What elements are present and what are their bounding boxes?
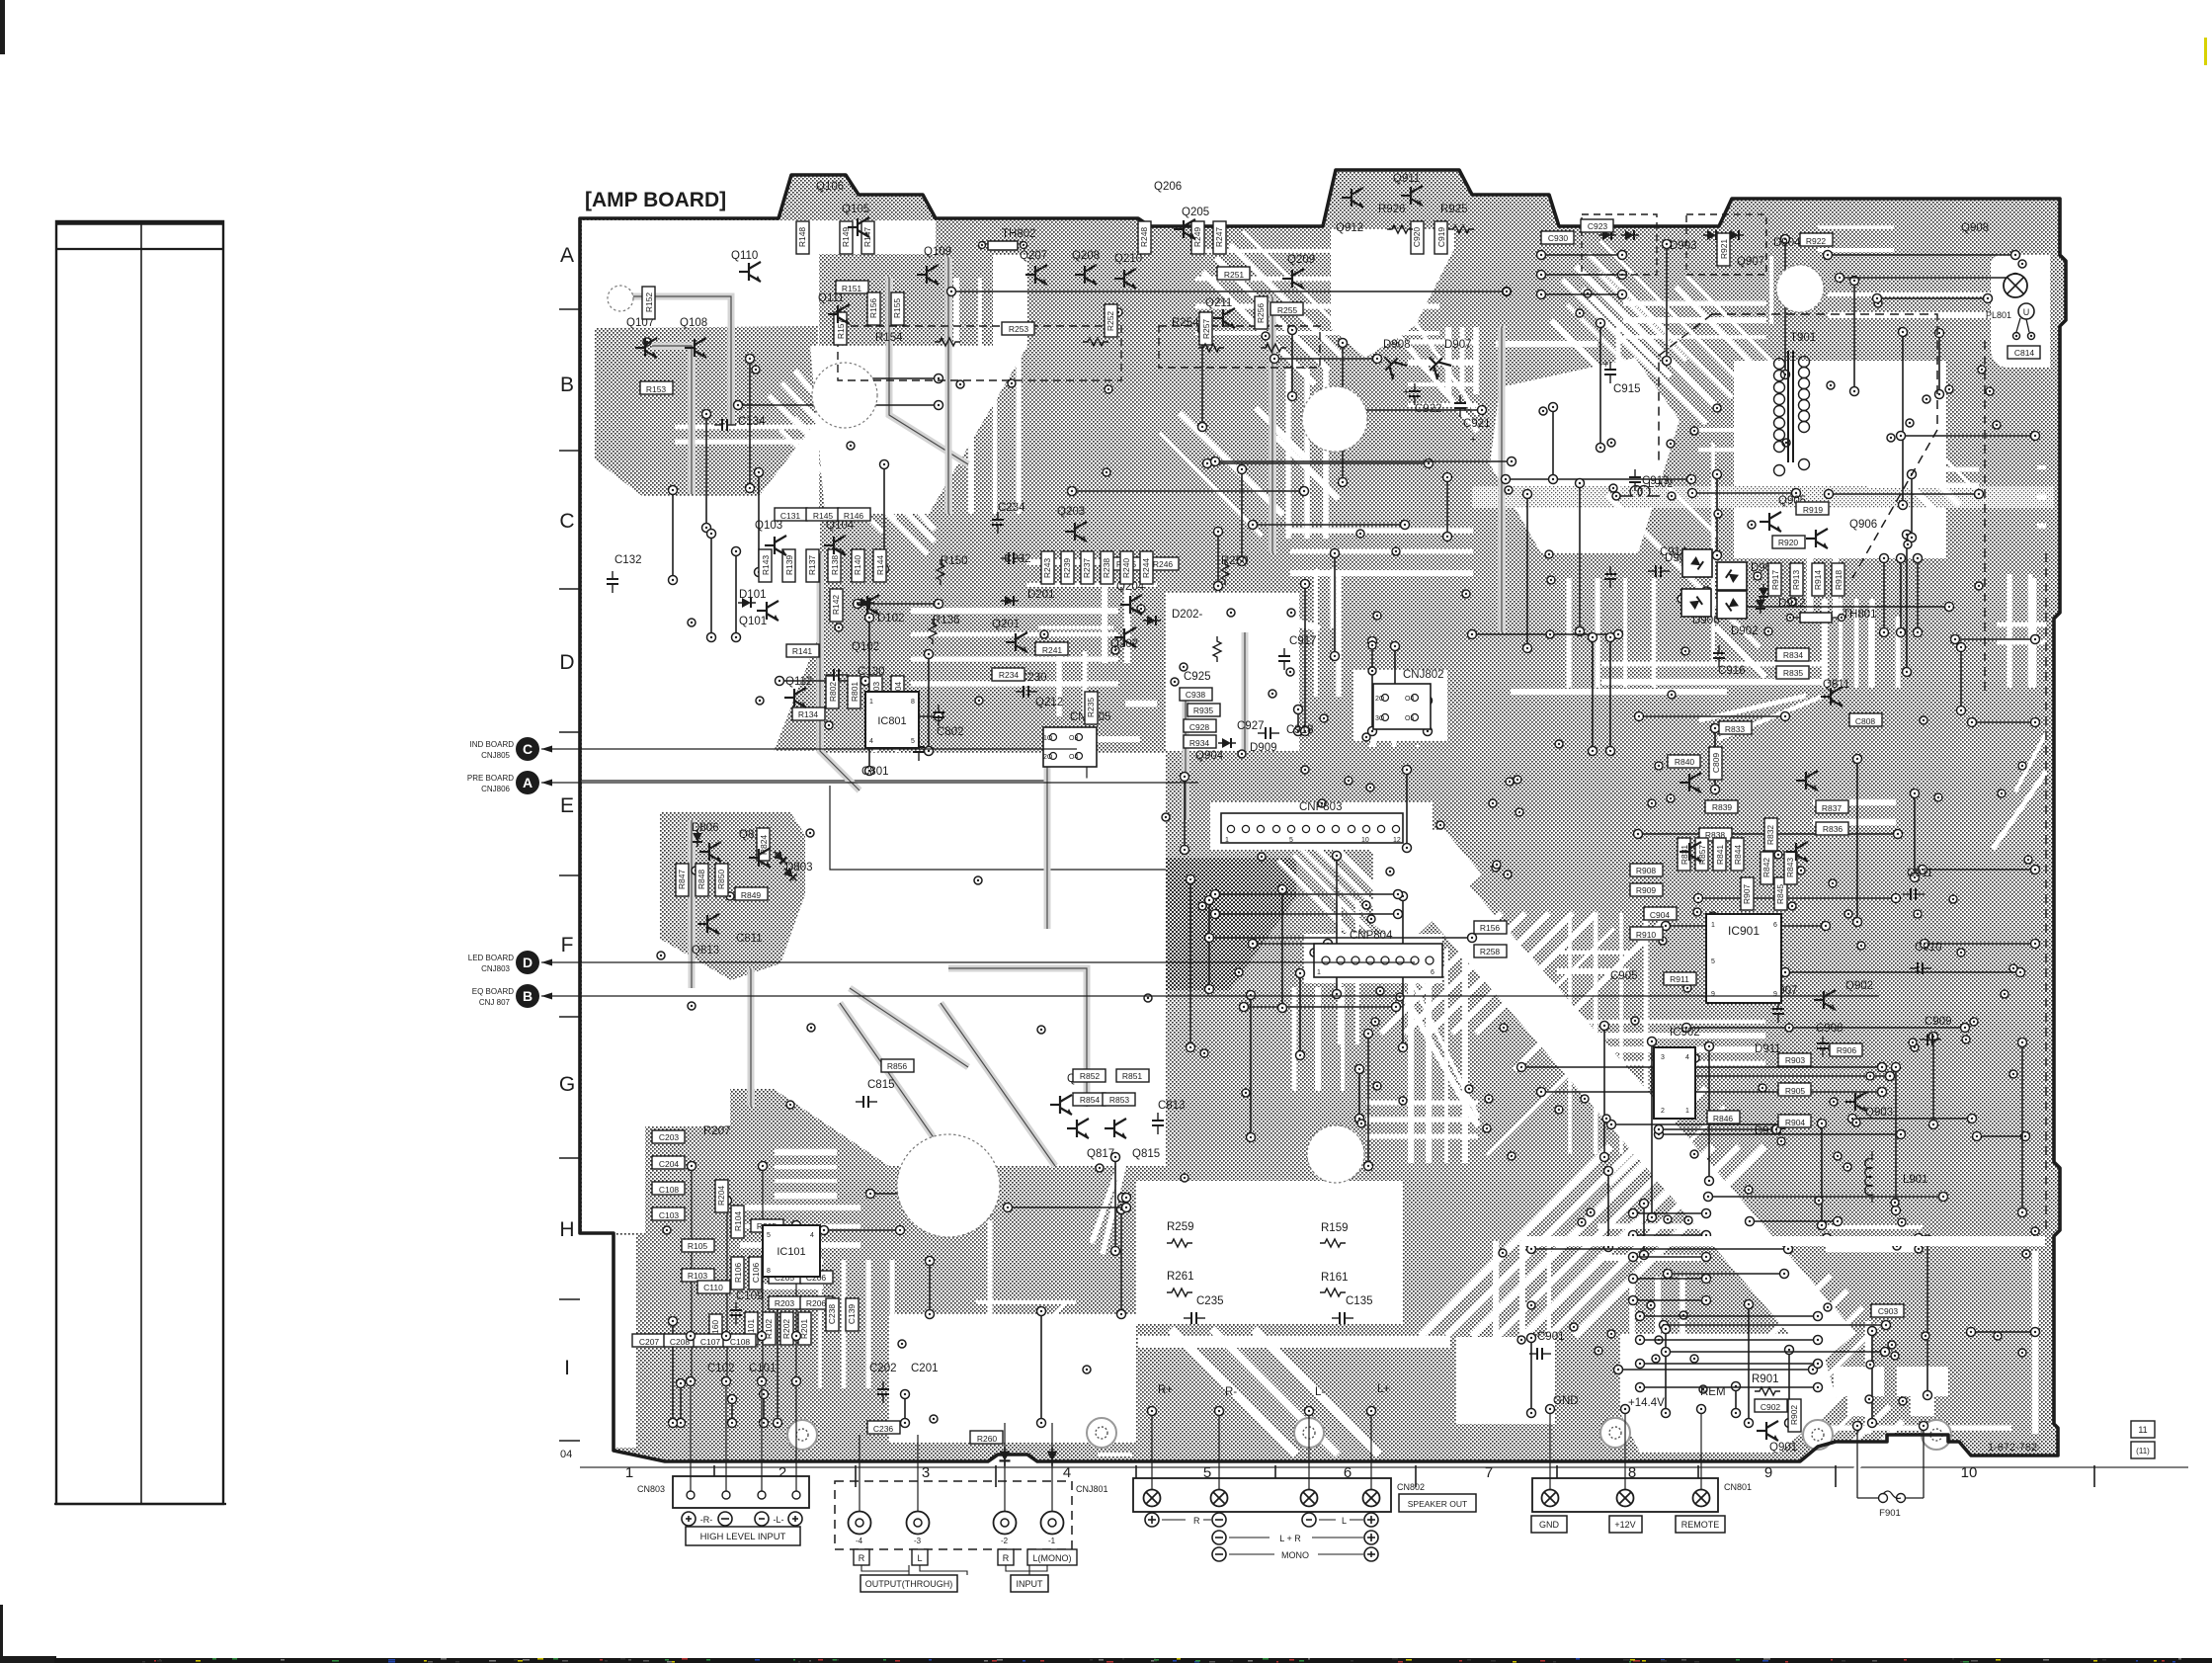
wire — [1424, 697, 1433, 736]
board outline — [580, 170, 2066, 1461]
resistor R260 label — [970, 1431, 1003, 1444]
wire — [1836, 274, 2020, 283]
svg-text:9: 9 — [1773, 991, 1777, 998]
resistor R849 label — [735, 887, 768, 900]
wire — [1211, 890, 1403, 899]
svg-text:R801: R801 — [850, 682, 860, 703]
svg-text:IC801: IC801 — [877, 715, 906, 727]
svg-text:R901: R901 — [1752, 1373, 1779, 1385]
svg-text:Q211: Q211 — [1205, 297, 1232, 309]
svg-text:CNJ 807: CNJ 807 — [479, 998, 511, 1007]
resistor R245 label — [1110, 557, 1143, 570]
diode pair D903 — [1598, 230, 1616, 240]
wire — [1318, 406, 1487, 415]
resistor R802 label — [826, 676, 839, 708]
svg-text:F: F — [561, 934, 574, 956]
svg-text:R834: R834 — [1783, 650, 1804, 660]
wire — [1211, 457, 1516, 466]
svg-text:R248: R248 — [1139, 227, 1149, 248]
svg-text:D907: D907 — [1444, 339, 1472, 351]
svg-text:D: D — [523, 955, 533, 970]
resistor R824 label — [757, 828, 770, 861]
svg-text:11: 11 — [2138, 1425, 2147, 1435]
svg-text:PL801: PL801 — [1986, 310, 2011, 320]
wire — [1908, 470, 1917, 542]
via — [898, 1340, 906, 1348]
wire — [707, 530, 716, 642]
svg-text:C919: C919 — [1436, 227, 1446, 248]
resistor R835 label — [1776, 666, 1809, 679]
svg-text:R935: R935 — [1193, 706, 1214, 715]
capacitor C103 label — [652, 1207, 685, 1220]
etched trace channels — [651, 227, 2063, 1478]
svg-text:+: + — [1470, 434, 1476, 446]
svg-text:R909: R909 — [1636, 885, 1657, 895]
dashed region outline right — [1659, 314, 2046, 1235]
resistor R833 label — [1719, 721, 1752, 734]
callout line D — [541, 961, 1415, 963]
svg-text:R202: R202 — [781, 1319, 791, 1340]
svg-text:A: A — [523, 775, 533, 790]
svg-text:C234: C234 — [998, 502, 1025, 514]
svg-text:L-: L- — [1315, 1386, 1325, 1398]
resistor R905 label — [1778, 1083, 1811, 1096]
wire — [1502, 475, 1696, 484]
svg-text:C139: C139 — [847, 1304, 857, 1325]
wire — [725, 1378, 727, 1491]
svg-text:D912: D912 — [1778, 598, 1806, 610]
wire — [1735, 603, 1954, 612]
svg-text:1O: 1O — [1043, 735, 1053, 742]
lamp PL801 — [2004, 274, 2027, 297]
via — [1037, 1026, 1045, 1034]
wire — [1523, 490, 1532, 653]
resistor R204 label — [715, 1180, 728, 1212]
via — [1506, 778, 1514, 786]
svg-text:1: 1 — [1711, 922, 1715, 929]
svg-text:C915: C915 — [1613, 383, 1641, 395]
svg-text:C108: C108 — [730, 1337, 751, 1347]
svg-text:R252: R252 — [1106, 311, 1115, 332]
svg-text:C927: C927 — [1237, 720, 1265, 732]
resistor R919 label — [1796, 502, 1829, 515]
via — [1797, 867, 1805, 874]
svg-text:R: R — [1003, 1553, 1010, 1563]
resistor R839 label — [1705, 800, 1738, 813]
resistor R246 label — [1146, 557, 1179, 570]
wire — [1606, 633, 1615, 756]
svg-text:2: 2 — [1661, 1108, 1665, 1115]
wire — [1249, 521, 1410, 530]
wire — [1919, 866, 2040, 874]
svg-text:C901: C901 — [1537, 1331, 1565, 1343]
via — [1750, 978, 1758, 986]
svg-text:C903: C903 — [1878, 1306, 1899, 1316]
svg-text:D909: D909 — [1250, 742, 1277, 754]
svg-text:R903: R903 — [1785, 1055, 1806, 1065]
wire — [1634, 830, 1903, 839]
light copper band — [1472, 486, 2054, 508]
wire — [1850, 277, 1859, 396]
svg-text:5: 5 — [1289, 837, 1293, 844]
wire — [1663, 240, 1672, 366]
wire — [1391, 642, 1400, 712]
wire — [1117, 1206, 1126, 1319]
wire — [1973, 1132, 2030, 1141]
svg-text:R906: R906 — [1837, 1045, 1857, 1055]
wire — [1629, 1209, 1711, 1218]
wire — [1823, 1234, 1924, 1243]
svg-text:C909: C909 — [1925, 1016, 1952, 1028]
high level input polarity symbols — [682, 1512, 696, 1526]
via — [663, 1226, 671, 1234]
wire — [854, 600, 943, 609]
wire — [1704, 1193, 1948, 1202]
svg-text:R835: R835 — [1783, 668, 1804, 678]
svg-text:HIGH LEVEL INPUT: HIGH LEVEL INPUT — [700, 1532, 786, 1542]
svg-text:Q104: Q104 — [826, 520, 855, 532]
wire — [1600, 1022, 1609, 1162]
wire — [1537, 1088, 1887, 1097]
wire — [1589, 633, 1598, 756]
wire — [830, 786, 1166, 870]
board white region lower-left — [771, 753, 1166, 1166]
capacitor C919 label — [1434, 221, 1447, 254]
capacitor C920 label — [1411, 221, 1424, 254]
svg-text:R831: R831 — [1679, 845, 1689, 866]
capacitor C110 label — [697, 1281, 730, 1293]
OUTPUT THROUGH label — [861, 1565, 967, 1575]
via — [1105, 385, 1112, 393]
board white region diag corridor — [1413, 860, 1837, 1350]
svg-text:Q908: Q908 — [1961, 222, 1989, 234]
resistor R837 label — [1816, 800, 1848, 813]
svg-text:D903: D903 — [1670, 240, 1697, 252]
resistor R854 label — [1073, 1093, 1106, 1106]
via — [1690, 1355, 1698, 1363]
wire — [1604, 1167, 1613, 1252]
capacitor C938 label — [1180, 688, 1212, 701]
svg-text:R251: R251 — [1224, 270, 1245, 280]
via — [825, 721, 833, 729]
thermistor TH801 symbol — [1800, 613, 1832, 623]
svg-text:L: L — [917, 1553, 922, 1563]
via — [1899, 1397, 1907, 1405]
svg-text:R911: R911 — [1670, 974, 1689, 984]
resistor R147 label — [861, 221, 874, 254]
svg-text:R261: R261 — [1167, 1271, 1194, 1283]
svg-text:R852: R852 — [1080, 1071, 1101, 1081]
wire — [1296, 969, 1305, 1060]
svg-text:12: 12 — [1393, 837, 1401, 844]
svg-text:R926: R926 — [1378, 204, 1406, 215]
via — [1547, 576, 1555, 584]
via — [1829, 879, 1837, 887]
svg-text:R920: R920 — [1778, 538, 1799, 547]
svg-text:C815: C815 — [867, 1079, 895, 1091]
svg-text:4: 4 — [1685, 1054, 1689, 1061]
svg-text:-1: -1 — [1048, 1537, 1056, 1545]
svg-text:C103: C103 — [659, 1210, 680, 1220]
resistor R238 label — [1101, 551, 1113, 584]
svg-text:R850: R850 — [716, 870, 726, 890]
svg-text:R136: R136 — [933, 615, 960, 626]
+12V label — [1609, 1516, 1642, 1533]
wire — [1921, 940, 2040, 949]
resistor R903 label — [1778, 1053, 1811, 1066]
board white region bottom middle — [1136, 1181, 1403, 1324]
svg-text:CN803: CN803 — [637, 1484, 665, 1494]
wire — [1187, 875, 1195, 1052]
wire — [1308, 1413, 1310, 1489]
svg-text:R156: R156 — [868, 298, 878, 319]
via — [1920, 716, 1927, 724]
svg-text:3O: 3O — [1375, 715, 1385, 722]
wire — [1537, 271, 1627, 280]
diode bridge D905 D901 D906 D902 packages — [1682, 549, 1712, 577]
resistor R918 label — [1832, 563, 1844, 596]
svg-text:R235: R235 — [1086, 698, 1096, 718]
via — [1993, 421, 2001, 429]
via — [847, 442, 855, 450]
svg-text:R908: R908 — [1636, 866, 1657, 875]
svg-text:R843: R843 — [1785, 858, 1795, 878]
resistor R906 label — [1830, 1043, 1862, 1056]
wire — [1004, 1204, 1131, 1212]
svg-text:R856: R856 — [887, 1061, 908, 1071]
wire — [1781, 235, 1790, 379]
svg-text:R246: R246 — [1153, 559, 1174, 569]
wire — [1824, 251, 2020, 260]
via — [1248, 826, 1256, 834]
svg-text:04: 04 — [560, 1449, 572, 1460]
svg-text:R159: R159 — [1321, 1222, 1349, 1234]
svg-text:R833: R833 — [1725, 724, 1746, 734]
wire — [925, 650, 934, 756]
via — [1891, 1352, 1899, 1360]
diagonal channel fan lower right — [1171, 913, 1764, 1455]
svg-text:R902: R902 — [1789, 1405, 1799, 1426]
resistor R102 label — [763, 1312, 776, 1345]
svg-text:R106: R106 — [733, 1263, 743, 1284]
svg-text:L: L — [1342, 1516, 1347, 1526]
resistor R803 label — [869, 676, 882, 708]
via — [1083, 1366, 1091, 1373]
resistor R253 label — [1002, 322, 1034, 335]
svg-text:L(MONO): L(MONO) — [1033, 1553, 1072, 1563]
wire — [1924, 1236, 1932, 1400]
IC IC801 — [865, 692, 919, 748]
svg-text:C916: C916 — [1718, 665, 1746, 677]
wire — [2018, 1039, 2027, 1217]
wire — [732, 547, 741, 642]
svg-text:C923: C923 — [1588, 221, 1608, 231]
via — [806, 829, 814, 837]
resistor R142 label — [830, 589, 843, 622]
svg-text:E: E — [560, 794, 574, 817]
svg-text:C809: C809 — [1711, 753, 1721, 774]
svg-text:R150: R150 — [941, 555, 968, 567]
IC IC901 — [1706, 914, 1781, 1003]
wire — [582, 753, 1087, 781]
svg-text:IC901: IC901 — [1728, 924, 1760, 938]
board white region under top bump 2 — [1331, 229, 1454, 358]
via — [1181, 1174, 1188, 1182]
svg-text:CNJ803: CNJ803 — [481, 964, 510, 973]
svg-text:1: 1 — [1685, 1108, 1689, 1115]
svg-text:R105: R105 — [688, 1241, 708, 1251]
via — [1664, 1215, 1672, 1223]
via — [1386, 868, 1394, 875]
svg-text:Q903: Q903 — [1865, 1107, 1893, 1119]
svg-text:CNP804: CNP804 — [1350, 930, 1393, 942]
via — [1709, 912, 1717, 920]
via — [975, 697, 983, 705]
via — [1399, 1097, 1407, 1105]
svg-text:R849: R849 — [741, 890, 762, 900]
resistor R144 label — [873, 549, 886, 582]
connector CNP803 — [1221, 813, 1403, 843]
diode symbols — [1756, 596, 1765, 614]
wire — [1355, 1065, 1364, 1123]
wire — [1655, 1130, 1906, 1139]
wire — [1301, 580, 1310, 736]
resistor R145 label — [806, 508, 839, 521]
PCB copper ground plane — [580, 170, 2066, 1461]
resistor R247 label — [1213, 221, 1226, 254]
wire — [1294, 706, 1303, 736]
svg-text:R155: R155 — [892, 298, 902, 319]
svg-text:C108: C108 — [659, 1185, 680, 1195]
wire — [1597, 319, 1605, 453]
resistor R856 label — [881, 1059, 914, 1072]
wire — [795, 1225, 797, 1378]
svg-text:C938: C938 — [1186, 690, 1206, 700]
wire — [1880, 554, 1889, 637]
svg-text:U: U — [2023, 307, 2030, 317]
resistor R137 label — [806, 549, 819, 582]
resistor R910 label — [1630, 927, 1663, 940]
svg-text:6: 6 — [1431, 969, 1434, 976]
svg-text:R243: R243 — [1042, 558, 1052, 579]
resistor R904 label — [1778, 1115, 1811, 1127]
wire — [1629, 1296, 1711, 1305]
svg-text:Q102: Q102 — [852, 641, 879, 653]
svg-text:C922: C922 — [1415, 403, 1442, 415]
svg-text:R149: R149 — [841, 227, 851, 248]
connector CN801 power — [1532, 1478, 1718, 1512]
resistor R838 label — [1699, 828, 1732, 841]
trace outlines on white areas — [632, 257, 1502, 1166]
wire — [1614, 1366, 1818, 1374]
resistor R834 label — [1776, 648, 1809, 661]
svg-text:C802: C802 — [937, 726, 964, 738]
connector CNJ805 — [1043, 727, 1097, 767]
svg-text:EQ BOARD: EQ BOARD — [472, 987, 514, 996]
capacitor C814 label — [2007, 346, 2040, 359]
resistor R801 label — [848, 676, 860, 708]
svg-text:R103: R103 — [688, 1271, 708, 1281]
svg-text:R839: R839 — [1712, 802, 1733, 812]
svg-text:R841: R841 — [1715, 845, 1725, 866]
resistor R841 label — [1713, 838, 1726, 871]
svg-text:R904: R904 — [1785, 1118, 1806, 1127]
thermistor TH802 symbol — [988, 241, 1018, 250]
wire — [1288, 326, 1297, 401]
svg-text:C202: C202 — [869, 1363, 897, 1374]
via — [807, 1024, 815, 1032]
wire — [1624, 1411, 1626, 1489]
wire — [1151, 1413, 1153, 1489]
svg-text:Q208: Q208 — [1072, 250, 1100, 262]
svg-text:+12V: +12V — [1614, 1520, 1635, 1530]
wire — [1629, 1253, 1711, 1262]
svg-text:R: R — [859, 1553, 865, 1563]
capacitor C930 label — [1541, 231, 1574, 244]
resistor R909 label — [1630, 883, 1663, 896]
capacitor symbols — [714, 419, 736, 431]
wire — [1664, 1270, 1789, 1279]
svg-text:R840: R840 — [1675, 757, 1695, 767]
svg-text:R846: R846 — [1713, 1114, 1734, 1123]
svg-text:C902: C902 — [1761, 1402, 1781, 1412]
svg-text:R259: R259 — [1167, 1221, 1194, 1233]
svg-text:D908: D908 — [1383, 339, 1411, 351]
wire — [1249, 940, 1333, 949]
svg-text:1-672-782-: 1-672-782- — [1988, 1442, 2041, 1454]
svg-text:Q108: Q108 — [680, 317, 707, 329]
resistor R840 label — [1668, 755, 1700, 768]
transformer T901 — [1774, 351, 1810, 476]
resistor R847 label — [676, 864, 689, 896]
svg-text:R844: R844 — [1733, 845, 1743, 866]
svg-text:H: H — [559, 1218, 574, 1241]
svg-text:5: 5 — [911, 738, 915, 745]
svg-text:C918: C918 — [1286, 724, 1314, 736]
resistor R205 label — [751, 1219, 783, 1232]
via — [1103, 468, 1110, 476]
wire — [795, 1378, 797, 1491]
wire — [1205, 896, 1214, 994]
wire — [1549, 1411, 1551, 1489]
copper island D806 cluster — [660, 812, 805, 980]
svg-text:5: 5 — [1711, 958, 1715, 965]
svg-text:R837: R837 — [1822, 803, 1843, 813]
svg-text:R140: R140 — [853, 555, 862, 576]
svg-text:Q912: Q912 — [1336, 222, 1363, 234]
resistor R851 label — [1116, 1069, 1149, 1082]
svg-text:Q201: Q201 — [992, 619, 1020, 630]
svg-text:-L-: -L- — [774, 1515, 784, 1525]
wire — [1370, 1413, 1372, 1489]
svg-text:R917: R917 — [1770, 570, 1780, 591]
svg-text:R914: R914 — [1813, 570, 1823, 591]
svg-text:TH802: TH802 — [1002, 228, 1036, 240]
resistor R842 label — [1761, 852, 1773, 884]
via — [762, 552, 770, 560]
resistor R832 label — [1764, 818, 1777, 851]
svg-text:I: I — [564, 1357, 570, 1379]
svg-text:D806: D806 — [692, 822, 719, 834]
connector CNJ801 dashed outline — [835, 1481, 1072, 1549]
wire — [1218, 1413, 1220, 1489]
resistor R149 label — [840, 221, 853, 254]
svg-text:L+: L+ — [1377, 1383, 1390, 1395]
resistor R101 label — [745, 1312, 758, 1345]
svg-text:INPUT: INPUT — [1017, 1579, 1044, 1589]
resistor symbols — [935, 338, 960, 346]
svg-text:R238: R238 — [1102, 558, 1111, 579]
